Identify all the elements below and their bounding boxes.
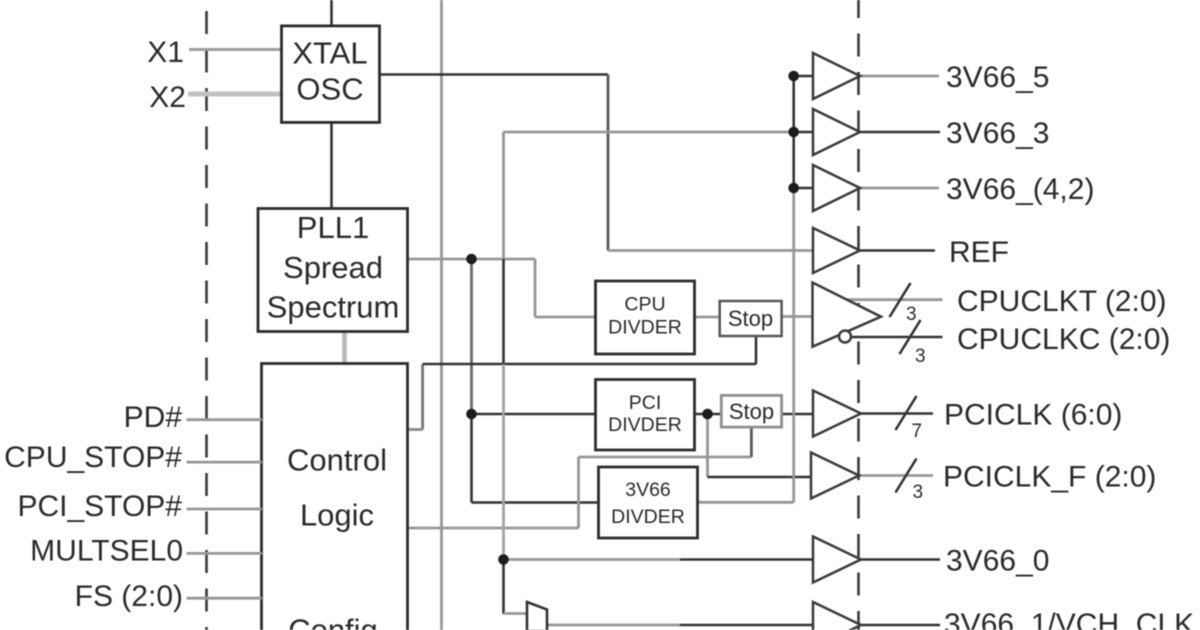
svg-text:Stop: Stop <box>729 399 774 424</box>
output wire 3V66_1/VCH_CLK <box>861 624 940 627</box>
svg-text:Logic: Logic <box>300 498 374 533</box>
wire: PCI_STOP# lead <box>187 508 263 511</box>
wire: 3V66 divider output to vertical bus x=794 <box>698 501 794 504</box>
wire: CPU divider feed elbow <box>534 259 537 317</box>
svg-text:X2: X2 <box>149 81 186 114</box>
wire: XTAL OSC output to REF buffer (elbow at x=608) <box>380 73 609 76</box>
svg-text:FS (2:0): FS (2:0) <box>75 580 183 613</box>
buffer 3V66_5 <box>813 53 860 99</box>
PLL1 Spread Spectrum box <box>258 209 408 332</box>
right dashed boundary line <box>857 0 860 630</box>
wire: PCICLK_F tap from PCI divider output <box>706 414 709 477</box>
wire: PCI divider feed <box>472 413 597 416</box>
svg-text:Stop: Stop <box>728 306 773 331</box>
svg-text:CPU: CPU <box>624 294 665 316</box>
output wire PCICLK_F <box>860 474 933 477</box>
buffer 3V66_1/VCH_CLK <box>813 602 861 630</box>
wire: 3V66 divider feed <box>472 501 600 504</box>
left dashed boundary line <box>205 0 208 630</box>
bus width slash PCICLK <box>896 396 917 430</box>
svg-text:Spectrum: Spectrum <box>267 290 400 325</box>
svg-text:X1: X1 <box>147 36 184 69</box>
wire: 3V66 rail to left at y=132 <box>504 131 794 134</box>
svg-text:3: 3 <box>906 304 917 325</box>
mux flag for 3V66_1/VCH_CLK <box>527 602 547 630</box>
wire: XTAL OSC top stub to figure edge <box>330 0 333 27</box>
svg-text:3V66: 3V66 <box>625 479 671 501</box>
wire: CPU_STOP# lead <box>187 461 263 464</box>
wire: XTAL OSC to PLL1 <box>330 122 333 209</box>
wire: Stop2 to PCICLK buffer <box>782 413 814 416</box>
svg-text:Control: Control <box>287 443 387 478</box>
svg-text:Config: Config <box>288 613 378 630</box>
wire: PD# lead <box>187 418 263 421</box>
junction node PCI divider output tap <box>702 409 713 420</box>
junction node on 3V66 bus at 3V66_(4,2) <box>788 183 799 194</box>
buffer REF <box>813 228 860 273</box>
wire: MULTSEL0 lead <box>187 552 263 555</box>
Stop box 1 (CPU) <box>720 301 782 336</box>
wire: CPU divider to Stop1 <box>694 316 720 319</box>
output wire 3V66_5 <box>860 75 939 78</box>
buffer 3V66_3 <box>813 109 860 155</box>
svg-text:3V66_1/VCH_CLK: 3V66_1/VCH_CLK <box>944 608 1194 630</box>
svg-text:3: 3 <box>913 482 924 503</box>
wire: PLL vertical distribution x=470 <box>470 259 473 414</box>
svg-text:PCI_STOP#: PCI_STOP# <box>17 490 182 523</box>
wire: FS lead <box>187 597 263 600</box>
output wire 3V66_(4,2) <box>860 187 939 190</box>
output wire 3V66_0 <box>861 558 940 561</box>
bus width slash CPUCLKC <box>900 320 921 354</box>
output wire PCICLK <box>861 412 933 415</box>
buffer CPUCLK differential <box>813 283 882 347</box>
buffer 3V66_0 <box>813 537 861 583</box>
wire: buffer input stubs from bus dots <box>794 75 813 78</box>
output wire CPUCLKT <box>847 298 943 301</box>
junction node PCI divider input <box>466 409 477 420</box>
wire: PLL1 to Control Logic connector <box>342 331 347 364</box>
svg-text:3V66_3: 3V66_3 <box>946 117 1049 150</box>
buffer PCICLK_F <box>811 453 859 499</box>
svg-text:3: 3 <box>915 346 926 367</box>
svg-text:Spread: Spread <box>283 250 383 285</box>
output wire 3V66_3 <box>860 131 940 134</box>
svg-text:PCICLK_F (2:0): PCICLK_F (2:0) <box>943 461 1156 494</box>
wire: control logic to Stop2 enable (elbow x=578.5) <box>408 527 579 530</box>
svg-text:PLL1: PLL1 <box>297 210 369 245</box>
junction node PLL1 output <box>466 254 477 265</box>
svg-text:3V66_5: 3V66_5 <box>946 61 1049 94</box>
svg-text:3V66_0: 3V66_0 <box>946 545 1049 578</box>
bus width slash PCICLK_F <box>896 459 917 493</box>
junction node 3V66_0 tap <box>498 554 509 565</box>
svg-text:DIVDER: DIVDER <box>608 317 682 339</box>
junction node on 3V66 bus at 3V66_3 <box>788 127 799 138</box>
CPU DIVDER box <box>596 281 695 354</box>
wire: control logic to Stop1 enable (elbow x=422.6) <box>408 428 423 431</box>
buffer PCICLK <box>813 391 861 437</box>
svg-text:MULTSEL0: MULTSEL0 <box>30 535 183 568</box>
svg-text:DIVDER: DIVDER <box>611 506 685 528</box>
svg-text:3V66_(4,2): 3V66_(4,2) <box>946 173 1094 206</box>
wire: Stop1 to CPUCLK buffer <box>782 315 814 318</box>
wire: 3V66 vertical bus x=794 <box>792 188 795 502</box>
junction node on 3V66 bus at 3V66_5 <box>788 71 799 82</box>
wire: 3V66 distribution vertical x=503.5 <box>502 132 505 259</box>
inversion bubble on CPUCLKC <box>839 331 851 343</box>
svg-text:CPU_STOP#: CPU_STOP# <box>4 441 182 474</box>
wire: PLL1 output horizontal at y=259 <box>408 258 536 261</box>
svg-text:PD#: PD# <box>124 401 183 434</box>
output wire CPUCLKC <box>851 336 943 339</box>
svg-text:PCI: PCI <box>629 392 662 414</box>
wire: X2 lead into XTAL OSC <box>188 92 283 97</box>
Stop box 2 (PCI) <box>721 395 781 427</box>
wire: mux output to 3V66_1 buffer <box>547 624 680 627</box>
wire: mux feed <box>504 612 528 615</box>
svg-text:DIVDER: DIVDER <box>608 414 682 436</box>
wire: long gray vertical from top to bottom at x=441 <box>440 0 443 630</box>
svg-text:PCICLK (6:0): PCICLK (6:0) <box>944 399 1122 432</box>
3V66 DIVDER box <box>599 467 698 538</box>
svg-text:CPUCLKT (2:0): CPUCLKT (2:0) <box>957 285 1167 318</box>
svg-text:7: 7 <box>912 421 923 442</box>
svg-text:REF: REF <box>949 236 1009 269</box>
wire: X1 lead into XTAL OSC <box>189 48 283 51</box>
svg-text:XTAL: XTAL <box>292 36 367 71</box>
Control Logic box <box>262 364 408 630</box>
wire: PCI divider to Stop2 <box>694 413 722 416</box>
PCI DIVDER box <box>596 380 695 451</box>
bus width slash CPUCLKT <box>890 283 911 317</box>
output wire REF <box>860 249 935 252</box>
buffer 3V66_(4,2) <box>813 165 860 211</box>
XTAL OSC box U1 <box>282 26 380 123</box>
svg-text:OSC: OSC <box>296 72 363 107</box>
svg-text:CPUCLKC (2:0): CPUCLKC (2:0) <box>957 323 1170 356</box>
wire: 3V66_0 buffer feed <box>504 558 681 561</box>
